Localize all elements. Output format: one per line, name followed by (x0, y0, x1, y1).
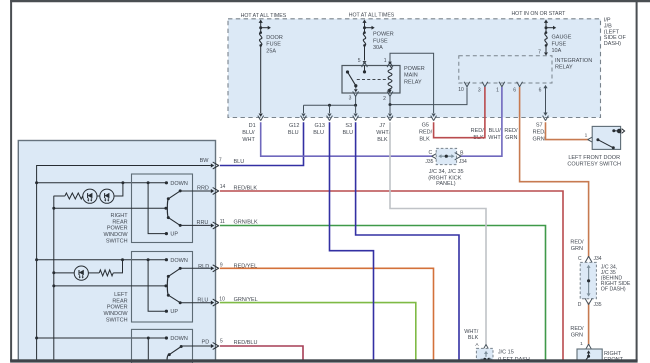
svg-text:3: 3 (349, 95, 352, 101)
svg-text:LEFT FRONT DOOR: LEFT FRONT DOOR (568, 155, 620, 161)
node common bus left rear LED (52, 271, 55, 274)
connector pin 11 (RRU / GRN/BLK) (211, 223, 214, 227)
switch left rear power window box (132, 252, 193, 323)
page frame top border (10, 0, 650, 2)
svg-text:RED/BLU: RED/BLU (234, 340, 258, 346)
switch right front door courtesy contacts (588, 352, 590, 356)
svg-text:COURTESY SWITCH: COURTESY SWITCH (567, 162, 621, 168)
svg-text:POWER: POWER (107, 226, 128, 232)
wire common return bus (53, 196, 55, 361)
wire RED/GRN from S7 to left front door courtesy switch (546, 122, 589, 139)
svg-text:OF DASH): OF DASH) (601, 286, 626, 292)
power fuse feed arrow from hot bus (362, 20, 366, 23)
contact right rear UP (165, 232, 168, 235)
svg-text:DASH): DASH) (604, 41, 621, 47)
svg-text:BLK: BLK (468, 335, 479, 341)
svg-text:REAR: REAR (112, 219, 127, 225)
svg-text:RRU: RRU (196, 220, 208, 226)
connector pin 9 (RLD / RED/YEL) (211, 266, 214, 270)
svg-text:RED/: RED/ (471, 128, 485, 134)
wire LED to common bus left rear (54, 272, 75, 274)
svg-text:WHT: WHT (488, 135, 501, 141)
fuse DOOR FUSE 25A (259, 33, 261, 46)
svg-text:POWER: POWER (373, 32, 394, 38)
wire RRU output (180, 224, 211, 226)
contact left rear DOWN (165, 258, 168, 261)
wire BLU from S3 to bottom (356, 122, 459, 360)
svg-text:5: 5 (358, 58, 361, 64)
wire RED/BLU from switch pin 5 to bottom (220, 346, 303, 361)
svg-text:HOT AT ALL TIMES: HOT AT ALL TIMES (241, 13, 287, 19)
relay armature link (dashed) (357, 78, 389, 80)
page frame left border (10, 0, 12, 361)
resistor right rear (65, 193, 83, 199)
svg-text:S7: S7 (536, 123, 543, 129)
node LED branch left rear (121, 258, 124, 261)
switch passenger power window box (partial) (132, 329, 193, 363)
door fuse feed arrow from hot bus (259, 20, 263, 23)
wire power rail right rear DOWN (37, 182, 167, 184)
node door fuse tap (259, 26, 262, 29)
svg-text:J35: J35 (425, 159, 433, 165)
wiper blade right rear to RRD (168, 191, 180, 199)
junction J/C 34 vertical internal bus (588, 267, 590, 295)
resistor left rear (99, 270, 113, 276)
svg-text:RED/: RED/ (570, 326, 584, 332)
svg-text:DOOR: DOOR (266, 35, 283, 41)
node power bus to left rear switch (35, 258, 38, 261)
node power bus to right rear switch (35, 181, 38, 184)
svg-text:G12: G12 (289, 123, 299, 129)
LED right rear 2 (100, 189, 114, 203)
svg-text:D1: D1 (249, 123, 256, 129)
svg-text:BLU: BLU (234, 159, 245, 165)
junction J/C 15 internal bus (485, 352, 487, 357)
svg-text:1: 1 (580, 341, 583, 347)
relay pin 3 (353, 91, 359, 96)
svg-text:RED/: RED/ (570, 240, 584, 246)
wire power rail passenger DOWN (37, 337, 167, 339)
connector D1 on J/B (258, 116, 264, 121)
fuse POWER FUSE 30A (363, 33, 365, 46)
svg-text:11: 11 (220, 219, 225, 225)
svg-text:7: 7 (219, 158, 222, 164)
wire GRN/BLK from switch pin 11 to bottom (220, 226, 546, 361)
svg-text:G13: G13 (314, 123, 324, 129)
svg-text:RED/: RED/ (533, 130, 547, 136)
wire left rear common (54, 285, 166, 287)
wire power rail left rear DOWN (37, 259, 167, 261)
svg-text:RED/BLK: RED/BLK (234, 185, 258, 191)
connector S7 on J/B (543, 116, 549, 121)
svg-text:PANEL): PANEL) (436, 181, 456, 187)
svg-text:LEFT: LEFT (114, 292, 128, 298)
connector pin 5 (PD / RED/BLU) (211, 344, 214, 348)
svg-text:UP: UP (170, 232, 178, 238)
connector G12 on J/B (301, 116, 307, 121)
svg-text:5: 5 (220, 339, 223, 345)
node right rear DOWN rail junction (147, 181, 150, 184)
svg-text:J/C 34, J/C 35: J/C 34, J/C 35 (429, 169, 464, 175)
svg-text:BLU: BLU (288, 130, 299, 136)
junction J/C 34 internal bus (440, 155, 453, 157)
switch left front door courtesy box (592, 126, 620, 149)
wire LED link (97, 195, 100, 197)
relay pin 1 (387, 62, 393, 67)
integration relay pin 6 (517, 82, 523, 87)
contact right rear DOWN (165, 181, 168, 184)
svg-text:10: 10 (458, 87, 464, 93)
switch left front door courtesy case arrow (622, 129, 625, 134)
wire RLU output (180, 302, 211, 304)
junction J/C 34 J/C 35 (right side dash) connector D (585, 298, 592, 304)
connector G5 on J/B (431, 116, 437, 121)
svg-text:GAUGE: GAUGE (552, 35, 572, 41)
wire RED/YEL from switch pin 9 to bottom (220, 268, 434, 360)
svg-text:2: 2 (383, 96, 386, 102)
relay coil (388, 67, 392, 93)
svg-text:FUSE: FUSE (266, 42, 281, 48)
svg-text:7: 7 (538, 49, 541, 55)
svg-text:BW: BW (200, 158, 210, 164)
svg-text:SWITCH: SWITCH (106, 239, 128, 245)
svg-text:10A: 10A (552, 48, 562, 54)
svg-text:RELAY: RELAY (555, 64, 573, 70)
svg-text:DOWN: DOWN (170, 181, 187, 187)
svg-text:30A: 30A (373, 45, 383, 51)
wiper blade passenger to PD (180, 345, 183, 348)
svg-text:3: 3 (478, 87, 481, 93)
svg-text:HOT AT ALL TIMES: HOT AT ALL TIMES (349, 13, 395, 19)
wire relay pin3 to G12 G13 S3 (304, 96, 356, 105)
svg-text:GRN: GRN (571, 332, 583, 338)
svg-text:MAIN: MAIN (404, 73, 418, 79)
svg-text:WINDOW: WINDOW (103, 232, 128, 238)
wire passenger DOWN-to-UP link (partial) (147, 338, 149, 361)
wiper bracket passenger (partial) (167, 355, 168, 361)
node power fuse tap (363, 26, 366, 29)
integration relay pin 3 (482, 82, 488, 87)
svg-text:J34: J34 (593, 256, 601, 262)
wire BLU from G13 to bottom (330, 122, 374, 360)
integration relay pin 10 (464, 82, 470, 87)
relay switch blade (346, 70, 349, 73)
switch left front door courtesy contacts (596, 138, 599, 141)
node pin3 junction (354, 104, 357, 107)
svg-text:BLU/: BLU/ (242, 130, 255, 136)
wire WHT/BLK from J7 to J/C 15 (390, 122, 486, 345)
svg-text:BLU: BLU (313, 130, 324, 136)
svg-text:FUSE: FUSE (552, 41, 567, 47)
integration relay pin 1 (499, 82, 505, 87)
connector J7 on J/B (387, 116, 393, 121)
junction J/C 34 J/C 35 (right side dash) box (580, 262, 596, 298)
wiper bracket left rear (166, 276, 169, 295)
wire LED branch right rear (114, 183, 123, 196)
svg-text:HOT IN ON OR START: HOT IN ON OR START (511, 11, 566, 17)
relay switch contact (pin 5 side) (364, 66, 366, 72)
svg-text:RLU: RLU (197, 298, 208, 304)
connector G13 on J/B (327, 116, 333, 121)
contact left rear UP (165, 310, 168, 313)
svg-text:RLD: RLD (198, 264, 209, 270)
power window master switch outer box (18, 141, 215, 361)
wire RED/GRN from J/C 34 to right front door courtesy switch (588, 303, 590, 346)
svg-text:6: 6 (539, 87, 542, 93)
svg-text:RED/: RED/ (419, 130, 433, 136)
junction J/C 34 J/C 35 (right kick panel) connector C (432, 153, 438, 160)
svg-text:9: 9 (220, 263, 223, 269)
svg-text:J34: J34 (459, 159, 467, 165)
svg-text:J7: J7 (379, 123, 385, 129)
I/P junction block J/B dashed box (228, 19, 601, 118)
node left rear DOWN rail junction (147, 258, 150, 261)
svg-text:14: 14 (220, 184, 226, 190)
svg-text:POWER: POWER (107, 305, 128, 311)
svg-text:RIGHT: RIGHT (604, 351, 622, 357)
wire drop to G12 (303, 105, 305, 113)
wire BLU/WHT segment right of J/C 34 (459, 87, 502, 156)
svg-text:10: 10 (219, 297, 225, 303)
wire drop to G13 (329, 105, 331, 113)
svg-text:C: C (428, 150, 432, 156)
svg-text:GRN: GRN (505, 135, 517, 141)
relay pin 5 (362, 62, 368, 67)
svg-text:DOWN: DOWN (170, 258, 187, 264)
page frame right border (636, 0, 638, 361)
wire left rear DOWN-to-UP link (148, 260, 166, 312)
node common bus right rear switch (52, 207, 55, 210)
svg-text:RIGHT: RIGHT (110, 213, 128, 219)
svg-text:J35: J35 (593, 302, 601, 308)
wire right rear DOWN-to-UP link (148, 183, 166, 234)
relay coil to pin 2 (389, 89, 391, 91)
wire PD output (181, 345, 211, 347)
junction J/C 34 J/C 35 (right side dash) connector C (585, 256, 592, 262)
switch right front door courtesy box (577, 349, 602, 361)
wire door fuse to connector D1 (260, 45, 262, 113)
relay blade to pin 3 (355, 86, 357, 89)
svg-text:J/C 15: J/C 15 (498, 350, 514, 356)
svg-text:RED/YEL: RED/YEL (234, 264, 258, 270)
wire RED/BLK from G5 to integration relay pin 3 (434, 87, 485, 138)
svg-text:C: C (578, 256, 582, 262)
svg-text:G5: G5 (422, 123, 429, 129)
svg-text:INTEGRATION: INTEGRATION (555, 58, 592, 64)
wire drop to S3 (355, 105, 357, 113)
svg-text:BLK: BLK (419, 136, 430, 142)
svg-text:6: 6 (513, 87, 516, 93)
svg-text:WHT: WHT (242, 137, 255, 143)
node G13 branch (328, 104, 331, 107)
gauge fuse feed arrow from hot bus (544, 20, 548, 23)
wire resistor to common bus (54, 195, 65, 197)
wire resistor to LED left rear (88, 272, 99, 274)
connector pin 10 (RLU / GRN/YEL) (211, 300, 214, 304)
relay U1 POWER MAIN RELAY box (342, 66, 400, 94)
wire RED/BLK from switch pin 14 to bottom (220, 191, 563, 361)
svg-text:SWITCH: SWITCH (106, 318, 128, 324)
node gauge fuse tap (545, 26, 548, 29)
svg-text:POWER: POWER (404, 66, 425, 72)
junction J/C 15 box (476, 348, 493, 362)
relay pin 2 (387, 91, 393, 96)
wire BW bus: pin 7 feed and vertical power bus (37, 166, 211, 361)
switch right rear power window box (132, 174, 193, 243)
relay U2 INTEGRATION RELAY dashed box (459, 56, 552, 83)
svg-text:BLK: BLK (377, 137, 388, 143)
svg-text:1: 1 (384, 58, 387, 64)
page frame bottom bar (10, 359, 638, 362)
wire gauge fuse to integration relay pin 7 (545, 45, 547, 52)
junction J/C 34 J/C 35 (right kick panel) box (436, 148, 456, 164)
wire BLU from switch pin 7 to G12 (220, 122, 304, 165)
connector pin 7 (BW / BLU) (211, 163, 214, 167)
wire relay pin1 riser to G5 (390, 53, 434, 113)
svg-text:WHT/: WHT/ (376, 130, 391, 136)
node LED branch right rear (121, 181, 124, 184)
svg-text:WINDOW: WINDOW (103, 311, 128, 317)
svg-text:GRN: GRN (532, 136, 544, 142)
svg-text:25A: 25A (266, 49, 276, 55)
fuse GAUGE FUSE 10A (545, 33, 547, 46)
wiper blade right rear to RRU (168, 218, 180, 226)
svg-text:PD: PD (202, 340, 210, 346)
connector S3 on J/B (353, 116, 359, 121)
wire RRD output (180, 190, 211, 192)
wiper bracket right rear (166, 199, 169, 218)
wire GRN/YEL from switch pin 10 to bottom (220, 303, 416, 361)
wire RED/GRN from integration relay pin 6 to J/C 34 right side (520, 87, 589, 258)
svg-text:1: 1 (585, 133, 588, 139)
svg-text:RELAY: RELAY (404, 80, 422, 86)
wiper blade left rear to RLU (168, 295, 180, 303)
node common bus left rear switch (52, 284, 55, 287)
svg-text:BLU: BLU (342, 130, 353, 136)
contact passenger DOWN (165, 336, 168, 339)
svg-text:REAR: REAR (112, 298, 127, 304)
connector pin 14 (RRD / RED/BLK) (211, 189, 214, 193)
wire RLD output (180, 267, 211, 269)
svg-text:DOWN: DOWN (170, 336, 187, 342)
wiper blade left rear to RLD (168, 268, 180, 276)
svg-text:UP: UP (170, 309, 178, 315)
svg-text:RED/: RED/ (504, 128, 518, 134)
node passenger DOWN rail junction (147, 337, 150, 340)
junction J/C 34 J/C 35 (right kick panel) connector B (455, 153, 461, 160)
wire BLU/WHT from D1 through J/C 34 to integration relay pin 1 (261, 122, 433, 156)
wire relay pin2 drop to J7 (389, 105, 391, 113)
svg-text:BLU/: BLU/ (489, 128, 502, 134)
wire right rear common (54, 207, 166, 209)
wire LED branch left rear (113, 260, 122, 273)
LED left rear (74, 266, 88, 280)
wire power fuse to relay pin 5 (364, 45, 366, 60)
svg-text:GRN: GRN (571, 246, 583, 252)
node pin2 junction (389, 103, 392, 106)
svg-text:RRD: RRD (197, 185, 209, 191)
svg-text:S3: S3 (345, 123, 352, 129)
svg-text:GRN/BLK: GRN/BLK (234, 220, 258, 226)
svg-text:FUSE: FUSE (373, 38, 388, 44)
LED right rear 1 (83, 189, 97, 203)
svg-text:GRN/YEL: GRN/YEL (234, 297, 258, 303)
wire relay pin2 to integration relay pin 10 (390, 87, 467, 104)
svg-text:D: D (578, 302, 582, 308)
node power bus to passenger switch (35, 337, 38, 340)
svg-text:1: 1 (496, 87, 499, 93)
